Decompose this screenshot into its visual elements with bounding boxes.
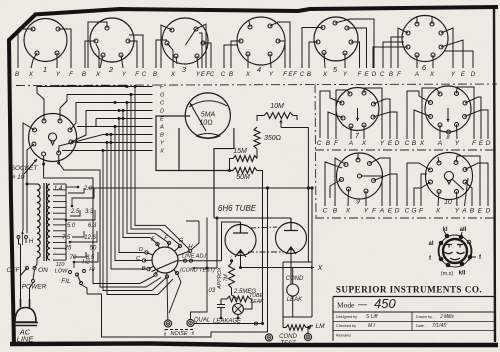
socket 2 pin labels: [82, 65, 147, 78]
border frame left: [9, 14, 36, 345]
title block fields: [336, 314, 454, 338]
model row: [337, 296, 396, 311]
jack J3 COND TEST: [265, 334, 272, 341]
socket 7 pin labels: [317, 133, 400, 147]
separator arrow: [58, 85, 128, 87]
AC plug: [13, 299, 38, 344]
6H6 tube diode section V1: [225, 222, 256, 268]
socket 1: [18, 19, 71, 69]
resistor approx 7M: [217, 259, 238, 299]
socket 6 pin labels: [380, 63, 476, 78]
border frame right: [494, 8, 495, 342]
wire filament tap to right side: [88, 186, 314, 262]
socket 3 pin labels: [153, 65, 215, 78]
socket 8: [407, 86, 488, 139]
capacitor .03: [207, 288, 225, 318]
socket 2: [85, 18, 143, 68]
transformer T1 core: [44, 183, 47, 261]
title block frame: [333, 297, 494, 342]
resistor 2.5MEG: [221, 289, 256, 302]
resistor 50M: [233, 168, 263, 182]
socket 4: [224, 17, 290, 68]
socket #10 name label: [11, 159, 39, 181]
socket 3: [156, 18, 211, 68]
socket #10 lower wires: [42, 155, 161, 287]
socket 8 pin labels: [405, 135, 491, 147]
socket 10: [407, 153, 488, 207]
socket 9 pin labels: [323, 199, 400, 215]
node X arrow: [239, 265, 323, 272]
socket 5 pin labels: [293, 65, 377, 78]
filament tap ladder: [54, 184, 98, 268]
LINE ADJ wire: [178, 254, 222, 263]
tube plate wires: [214, 217, 291, 269]
jack J4 COND TEST: [304, 328, 311, 341]
wires resistors to bottom: [263, 175, 270, 332]
power wires: [19, 239, 34, 301]
socket 4 pin labels: [221, 65, 294, 78]
socket 7: [320, 88, 397, 140]
transformer T1 secondary winding with taps: [47, 184, 66, 260]
meter M1 5MA 10ohm: [185, 93, 230, 139]
tube gang dash links: [248, 227, 283, 252]
rotary selector switch: [142, 241, 191, 278]
QUAL LEAKAGE switch wire: [194, 315, 264, 326]
selector contact wires: [167, 273, 181, 320]
socket 5: [302, 17, 374, 68]
right panel separator vertical dash-dot: [315, 84, 316, 218]
COND LEAK lamp and box: [283, 262, 312, 328]
COND TEST label: [279, 334, 297, 347]
socket #10 bus labels: [159, 85, 165, 155]
socket 10 pin labels: [405, 199, 491, 215]
socket 9: [325, 153, 397, 206]
socket #10 bus wires: [23, 87, 153, 234]
right panel separator mid dash-dot: [315, 149, 497, 151]
bus-to-selector wire bundle: [102, 85, 209, 295]
transformer T1 primary winding: [26, 183, 41, 269]
resistor 10M potentiometer: [257, 103, 310, 262]
socket 1 pin labels: [15, 65, 74, 78]
terminals L H: [10, 231, 33, 245]
COND TEST continuation wire: [180, 267, 217, 274]
panel separator dash-dot horizontal: [16, 84, 497, 86]
rotary selector letters: [136, 236, 194, 273]
bottom long wire: [87, 268, 268, 337]
right panel separator bottom dash-dot: [315, 217, 497, 219]
socket #10 (panel socket): [29, 114, 77, 162]
NOISE label box: [165, 330, 193, 338]
6H6 base diagram: [438, 231, 476, 267]
power switch OFF ON: [7, 267, 49, 291]
border frame top: [34, 7, 498, 15]
jack J1 noise: [164, 320, 171, 327]
6H6 base labels: [428, 227, 482, 277]
resistor 350 ohm: [254, 127, 281, 159]
bus junction dots: [106, 85, 133, 144]
TUBE LEAK lamp: [233, 293, 265, 315]
socket 6: [373, 16, 473, 69]
resistor 15M: [228, 148, 257, 172]
meter box wires: [156, 116, 234, 218]
resistor LM: [283, 323, 325, 330]
jack J2 noise: [187, 319, 194, 326]
border frame bottom: [10, 344, 498, 346]
FIL selector switch: [55, 260, 95, 295]
6H6 tube diode section V2: [276, 218, 307, 284]
